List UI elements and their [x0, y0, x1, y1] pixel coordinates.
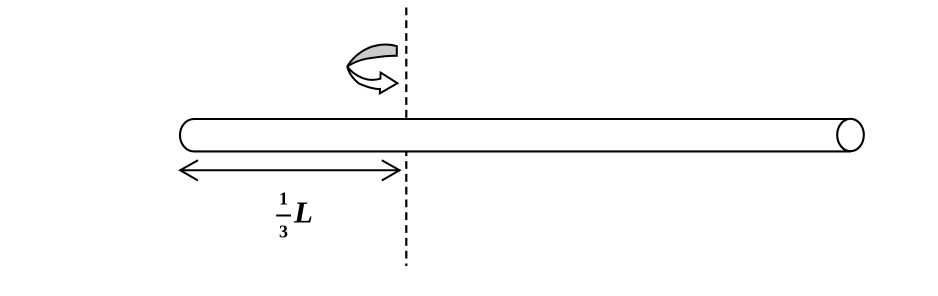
svg-text:3: 3	[279, 222, 288, 242]
rotation arrow: upper gray band	[347, 45, 397, 67]
svg-text:1: 1	[279, 188, 288, 208]
rod (long cylinder body with rounded left cap)	[180, 119, 851, 151]
dimension arrow shaft	[182, 169, 398, 171]
dimension arrow right open head	[382, 160, 400, 180]
dimension arrow left open head	[180, 160, 198, 180]
rotation arrow: lower white band with arrowhead	[347, 66, 397, 93]
label: fraction bar	[276, 215, 291, 217]
svg-text:L: L	[293, 195, 313, 230]
rotation axis (dashed vertical line)	[405, 8, 407, 267]
rod right end cap (ellipse)	[837, 119, 864, 151]
